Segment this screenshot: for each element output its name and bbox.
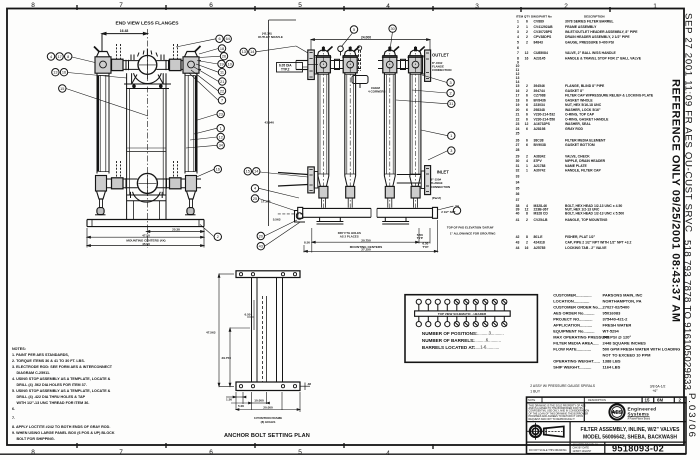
barrel F2 [343, 46, 357, 208]
svg-text:CONNECTION: CONNECTION [432, 68, 451, 72]
schematic header bar [415, 311, 511, 316]
paper trim line bottom [0, 453, 686, 455]
svg-text:(8) HOLES: (8) HOLES [261, 420, 276, 424]
parts list table [516, 15, 654, 250]
svg-text:O-RING, TOP CAP: O-RING, TOP CAP [565, 113, 595, 117]
svg-text:A PowerFlame Brand: A PowerFlame Brand [628, 417, 651, 420]
svg-text:2 ASSY W/ PRESSURE GAUGE SPI: 2 ASSY W/ PRESSURE GAUGE SPIRALS [530, 384, 595, 388]
row4 texts [529, 443, 598, 452]
svg-text:35: 35 [516, 186, 520, 190]
leader 15 [66, 89, 148, 117]
svg-text:8: 8 [526, 235, 528, 239]
svg-text:394744: 394744 [534, 89, 545, 93]
svg-text:3/8 6A-1/2: 3/8 6A-1/2 [650, 385, 666, 389]
svg-text:13: 13 [242, 50, 246, 54]
svg-text:INLET: INLET [437, 170, 450, 175]
svg-text:FRAME ASSEMBLY: FRAME ASSEMBLY [565, 25, 597, 29]
svg-text:V230-214-556: V230-214-556 [534, 117, 556, 121]
svg-text:2: 2 [217, 235, 219, 239]
svg-text:31: 31 [449, 102, 453, 106]
bottom header pipe [95, 179, 201, 188]
svg-text:CPV38DPS: CPV38DPS [534, 35, 552, 39]
frame cross member [127, 151, 166, 153]
svg-text:1: 1 [653, 3, 657, 10]
svg-text:FRESH WATER: FRESH WATER [603, 323, 632, 328]
svg-text:DO NOT SCALE THIS DRAWING: DO NOT SCALE THIS DRAWING [529, 449, 567, 452]
svg-text:28: 28 [516, 148, 520, 152]
svg-text:1388 LBS: 1388 LBS [603, 359, 621, 364]
svg-text:TOP OF PAD ELEVATION 'DATUM': TOP OF PAD ELEVATION 'DATUM' [447, 225, 494, 229]
svg-text:4. USING STOP ASSEMBLY AS A TE: 4. USING STOP ASSEMBLY AS A TEMPLATE, LO… [12, 377, 111, 381]
svg-text:41: 41 [516, 218, 520, 222]
svg-text:DESCRIPTION: DESCRIPTION [584, 15, 605, 19]
outlet nozzle note and extension [269, 20, 296, 226]
svg-text:298348: 298348 [534, 108, 545, 112]
svg-text:394546: 394546 [534, 84, 545, 88]
svg-text:DRAIN HEADER ASSEMBLY, 2 1/2": DRAIN HEADER ASSEMBLY, 2 1/2" PIPE [565, 35, 630, 39]
svg-text:29: 29 [516, 155, 520, 159]
barrel F4 [409, 46, 423, 208]
svg-text:22: 22 [220, 89, 224, 93]
svg-text:95016083: 95016083 [603, 311, 622, 316]
skid support plates [317, 217, 410, 224]
svg-text:WT-5294: WT-5294 [603, 329, 620, 334]
svg-text:A25785: A25785 [534, 246, 546, 250]
bottom couplings [112, 178, 124, 189]
svg-text:7.: 7. [12, 416, 15, 420]
svg-text:38C38: 38C38 [534, 138, 544, 142]
svg-text:4: 4 [526, 159, 528, 163]
title block frame [527, 397, 687, 454]
balloon 15 [244, 168, 251, 175]
balloon 11 [218, 69, 225, 76]
svg-text:500 GPM FRESH WATER WITH LOADI: 500 GPM FRESH WATER WITH LOADING [603, 347, 681, 352]
svg-text:6: 6 [526, 94, 528, 98]
svg-text:1: 1 [526, 25, 528, 29]
svg-text:GRAY ROD: GRAY ROD [565, 127, 583, 131]
left view top dimension 16.48 [102, 29, 147, 52]
svg-text:REFERENCE ONLY 09/25/2001 08:4: REFERENCE ONLY 09/25/2001 08:43:37 AM [670, 79, 682, 322]
svg-text:REQUEST AND NOT TO REPRODUCE I: REQUEST AND NOT TO REPRODUCE IT [529, 418, 576, 421]
svg-text:44: 44 [516, 246, 520, 250]
svg-text:21: 21 [516, 113, 520, 117]
svg-text:NOTE: NOTE [528, 398, 535, 402]
svg-text:4: 4 [254, 187, 256, 191]
svg-text:CAP, PIPE 2 1/2" NPT WITH 1/2": CAP, PIPE 2 1/2" NPT WITH 1/2" NPT +3.2 [565, 241, 631, 245]
svg-text:13: 13 [53, 71, 57, 75]
svg-text:27.250: 27.250 [361, 248, 371, 252]
svg-text:87PV: 87PV [534, 159, 543, 163]
svg-text:2: 2 [526, 41, 528, 45]
svg-text:NUT, HEX 5/16-18 UNC: NUT, HEX 5/16-18 UNC [565, 103, 602, 107]
svg-text:NUMBER OF POSITIONS:: NUMBER OF POSITIONS: [422, 331, 478, 336]
svg-text:BOLT, HEX HEAD 1/2-13 UNC x 5.: BOLT, HEX HEAD 1/2-13 UNC x 5.500 [565, 211, 624, 215]
balloon 13 [240, 48, 247, 55]
svg-text:14: 14 [250, 50, 254, 54]
svg-text:WASHER, SEAL: WASHER, SEAL [565, 122, 591, 126]
left coupling top [112, 59, 124, 70]
svg-text:3: 3 [475, 3, 479, 10]
svg-text:5. USING STOP ASSEMBLY AS A TE: 5. USING STOP ASSEMBLY AS A TEMPLATE, LO… [12, 389, 111, 393]
balloon 1 [217, 125, 224, 132]
svg-text:SHIP WEIGHT...........: SHIP WEIGHT........... [553, 365, 591, 370]
svg-text:42: 42 [516, 235, 520, 239]
zone ticks bottom [77, 443, 433, 449]
svg-text:18: 18 [220, 47, 224, 51]
balloon 4 [47, 53, 54, 60]
svg-text:19: 19 [516, 103, 520, 107]
chem bracket 4 corners [352, 76, 368, 89]
anchor plan top bar [236, 271, 300, 278]
svg-text:33: 33 [516, 175, 520, 179]
svg-text:6: 6 [526, 113, 528, 117]
svg-text:1: 1 [517, 20, 519, 24]
svg-text:9518093-02: 9518093-02 [612, 444, 664, 454]
anchor plan bottom dims [226, 392, 300, 412]
svg-text:11: 11 [220, 71, 224, 75]
svg-text:M328 CD: M328 CD [534, 211, 549, 215]
svg-text:375440-421-2: 375440-421-2 [603, 317, 629, 322]
svg-text:15: 15 [516, 84, 520, 88]
zone numbers top [31, 2, 657, 10]
balloon 12 [217, 133, 224, 140]
anchor plan rails [251, 278, 253, 383]
svg-text:NORTHAMPTON, PA: NORTHAMPTON, PA [603, 299, 642, 304]
svg-text:1" ALLOWANCE FOR GROUTING: 1" ALLOWANCE FOR GROUTING [450, 231, 496, 235]
left view balloons [47, 35, 233, 240]
left barrel tube [97, 73, 109, 173]
outlet flange right [421, 50, 430, 81]
balloon 16 [60, 69, 67, 76]
balloon 14 [253, 168, 260, 175]
leader 4/17/8 [72, 57, 95, 63]
svg-text:47.563: 47.563 [206, 331, 216, 335]
barrel cap details [316, 47, 424, 57]
svg-text:FILTER MEDIA ELEMENT: FILTER MEDIA ELEMENT [565, 138, 606, 142]
svg-text:ITEM QTY DWG/PART No: ITEM QTY DWG/PART No [516, 15, 552, 19]
leader 13/14 [256, 46, 296, 52]
schematic top circles [416, 299, 507, 327]
svg-text:DRILL (4) .422 DIA THRU HOLES: DRILL (4) .422 DIA THRU HOLES & TAP [17, 395, 86, 399]
balloon 15 [59, 85, 66, 92]
svg-text:SEP 27 2001 11:09 FR AES QU-CU: SEP 27 2001 11:09 FR AES QU-CUST SRVC [683, 13, 694, 232]
svg-text:15: 15 [645, 398, 650, 403]
svg-text:VALVE, 2" BALL W/SS HANDLE: VALVE, 2" BALL W/SS HANDLE [565, 51, 617, 55]
saddle under bottom bore [133, 192, 161, 202]
electrode rod between barrels [357, 46, 361, 71]
svg-text:DRILL (4) .562 DIA HOLES FOR I: DRILL (4) .562 DIA HOLES FOR ITEM 37. [17, 383, 87, 387]
AES logo [609, 404, 624, 419]
svg-text:5.563: 5.563 [273, 218, 281, 222]
svg-text:2: 2 [526, 35, 528, 39]
rows above title block [530, 384, 665, 394]
svg-text:A23145: A23145 [534, 56, 546, 60]
svg-text:O-RING, GASKET HANDLE: O-RING, GASKET HANDLE [565, 117, 609, 121]
svg-text:12: 12 [219, 135, 223, 139]
base plate [87, 220, 204, 227]
svg-text:1: 1 [526, 164, 528, 168]
schematic text lines [422, 331, 478, 350]
svg-text:20.750: 20.750 [361, 238, 371, 242]
foot pads [95, 214, 106, 216]
svg-text:CV41292AB: CV41292AB [534, 25, 554, 29]
svg-text:30: 30 [390, 27, 394, 31]
leader 6/64 [176, 39, 216, 47]
svg-text:A30742: A30742 [534, 169, 546, 173]
center frame columns [127, 73, 166, 219]
svg-text:1: 1 [220, 127, 222, 131]
svg-text:518 793 7878 TO 916105029633: 518 793 7878 TO 916105029633 [682, 240, 693, 390]
svg-text:18: 18 [516, 98, 520, 102]
svg-text:HANDLE & TRAVEL STOP FOR 2" BA: HANDLE & TRAVEL STOP FOR 2" BALL VALVE [565, 56, 642, 60]
right barrel tube [185, 73, 197, 173]
svg-text:8: 8 [67, 55, 69, 59]
balloon 43 [257, 243, 264, 250]
svg-text:4: 4 [517, 35, 519, 39]
svg-text:5.00: 5.00 [238, 404, 244, 408]
svg-text:9. WHEN USING LARGE PANEL BOX: 9. WHEN USING LARGE PANEL BOX (6 POS & U… [12, 431, 115, 435]
svg-text:27: 27 [516, 143, 520, 147]
svg-text:EQUIPMENT No..........: EQUIPMENT No.......... [553, 329, 594, 334]
svg-text:END VIEW LESS FLANGES: END VIEW LESS FLANGES [115, 21, 179, 27]
svg-text:FILTER MEDIA AREA.....: FILTER MEDIA AREA..... [553, 341, 598, 346]
svg-text:CV889: CV889 [534, 20, 544, 24]
svg-text:VALVE, CHECK: VALVE, CHECK [565, 155, 590, 159]
svg-text:2: 2 [517, 25, 519, 29]
svg-text:7: 7 [517, 51, 519, 55]
svg-text:23: 23 [219, 112, 223, 116]
balloon 20 [257, 232, 264, 239]
svg-text:NOT TO EXCEED 10 PPM: NOT TO EXCEED 10 PPM [603, 353, 652, 358]
svg-text:4: 4 [50, 55, 52, 59]
balloon 3b [448, 147, 455, 154]
svg-text:FILTER ASSEMBLY, INLINE, W/2": FILTER ASSEMBLY, INLINE, W/2" VALVES [581, 427, 681, 433]
svg-text:8: 8 [31, 2, 35, 9]
dia note box 6.05 [277, 63, 308, 73]
svg-text:34: 34 [516, 180, 520, 184]
svg-text:2448 SQUARE INCHES: 2448 SQUARE INCHES [603, 341, 647, 346]
svg-text:17: 17 [516, 94, 520, 98]
svg-text:25: 25 [253, 197, 257, 201]
svg-text:LOCATION..............: LOCATION.............. [553, 299, 589, 304]
svg-text:7: 7 [221, 99, 223, 103]
svg-text:17.375: 17.375 [261, 200, 271, 204]
svg-text:FLOW RATE.............: FLOW RATE............. [553, 347, 591, 352]
svg-text:GASKET BOTTOM: GASKET BOTTOM [565, 143, 595, 147]
lower right flange INLET [397, 166, 431, 195]
svg-text:HANGLE, TOP MOUNTING: HANGLE, TOP MOUNTING [565, 218, 608, 222]
svg-text:2: 2 [526, 218, 528, 222]
svg-text:TOP VIEW SCHEMATIC - HEADER: TOP VIEW SCHEMATIC - HEADER [438, 312, 487, 316]
svg-text:Systems: Systems [628, 412, 650, 417]
svg-text:31: 31 [516, 164, 520, 168]
balloon 26 [220, 53, 227, 60]
schematic bottom circles [416, 316, 507, 326]
svg-text:6.50: 6.50 [245, 313, 251, 317]
svg-text:+6°: +6° [652, 389, 658, 393]
svg-text:FLANGE, BLIND 8" PIPE: FLANGE, BLIND 8" PIPE [565, 84, 605, 88]
svg-text:1.50: 1.50 [226, 398, 232, 402]
svg-text:6: 6 [526, 103, 528, 107]
svg-text:AS 2 PLACES: AS 2 PLACES [340, 234, 359, 238]
svg-text:FILTER CAP W/PRESSURE RELIEF &: FILTER CAP W/PRESSURE RELIEF & LOCKING P… [565, 94, 654, 98]
svg-text:5: 5 [517, 41, 519, 45]
balloon 5 [350, 26, 357, 33]
left barrel cap / ball valve [94, 47, 111, 74]
barrel F3 [383, 46, 397, 208]
bottom bore circle [137, 173, 157, 193]
svg-text:WITH 1/2"-13 UNC THREAD FOR IT: WITH 1/2"-13 UNC THREAD FOR ITEM 36. [17, 401, 90, 405]
svg-text:..........3...........: ..........3........... [477, 330, 504, 335]
left view vertical centerline [146, 29, 148, 248]
svg-text:20: 20 [516, 108, 520, 112]
svg-text:OUTLET: OUTLET [432, 53, 449, 58]
svg-text:A16732PS: A16732PS [534, 122, 551, 126]
anchor plan dim 6.50 [247, 300, 254, 330]
front view top dimension 24.000 [311, 35, 430, 50]
leader 13/16 [68, 73, 127, 79]
proprietary note text [529, 404, 590, 421]
svg-text:2: 2 [564, 3, 568, 10]
svg-text:6: 6 [526, 127, 528, 131]
svg-text:PROJECT NO............: PROJECT NO............ [553, 317, 592, 322]
right coupling top [170, 59, 182, 70]
svg-text:2: 2 [526, 30, 528, 34]
svg-text:(Part#): (Part#) [432, 196, 441, 200]
unions between barrel caps [308, 59, 409, 69]
svg-text:43: 43 [259, 245, 263, 249]
svg-text:6: 6 [526, 138, 528, 142]
projection symbol [527, 423, 564, 440]
svg-text:OPERATING WEIGHT......: OPERATING WEIGHT...... [553, 359, 600, 364]
svg-text:DESCRIPTION: DESCRIPTION [588, 398, 606, 402]
balloon 21 [219, 78, 226, 85]
balloon 7 [218, 97, 225, 104]
svg-text:3: 3 [450, 81, 452, 85]
svg-text:25.38: 25.38 [172, 228, 180, 232]
front view labels [432, 53, 449, 175]
svg-text:GASKET 8": GASKET 8" [565, 89, 584, 93]
leaders right cluster [199, 49, 218, 55]
svg-text:BV8436: BV8436 [534, 98, 546, 102]
svg-text:A28198: A28198 [534, 127, 546, 131]
anchor plan right tick [300, 385, 310, 387]
svg-text:25: 25 [516, 132, 520, 136]
svg-text:6: 6 [526, 117, 528, 121]
svg-text:64: 64 [226, 37, 230, 41]
anchor plan dim 47.563 [218, 274, 234, 387]
svg-text:CUSTOMER..............: CUSTOMER.............. [553, 293, 591, 298]
bolt ticks around bore [131, 49, 164, 61]
svg-text:NUMBER OF BARRELS:: NUMBER OF BARRELS: [422, 338, 475, 343]
left barrel bottom fittings [96, 176, 107, 215]
balloon 17 [56, 53, 63, 60]
svg-text:.38: .38 [307, 382, 311, 386]
anchor plan hole note [254, 416, 282, 424]
svg-text:16: 16 [216, 168, 220, 172]
svg-text:43.940: 43.940 [265, 121, 275, 125]
gauge on header [338, 46, 344, 52]
left view top header pipe [95, 61, 201, 70]
balloon 13 [52, 69, 59, 76]
svg-text:16: 16 [516, 89, 520, 93]
balloon 2 [447, 89, 454, 96]
svg-text:5: 5 [298, 2, 302, 9]
svg-text:PARSONS MAIN, INC: PARSONS MAIN, INC [603, 293, 643, 298]
svg-text:2: 2 [526, 89, 528, 93]
zone ticks top [77, 5, 610, 12]
top left flange (outlet nozzle) [296, 50, 318, 80]
svg-text:12: 12 [525, 51, 529, 55]
svg-text:2: 2 [526, 84, 528, 88]
svg-text:NOTES:: NOTES: [12, 347, 26, 351]
svg-text:12: 12 [525, 122, 529, 126]
dim 17.375 / 5.563 [278, 213, 304, 215]
svg-text:3: 3 [517, 30, 519, 34]
balloon 64 [224, 35, 231, 42]
svg-text:4: 4 [386, 3, 390, 10]
svg-text:6: 6 [526, 108, 528, 112]
svg-text:CU85084: CU85084 [534, 51, 548, 55]
balloon 34 [217, 142, 224, 149]
balloon 4 [251, 185, 258, 192]
balloon 8 [65, 53, 72, 60]
svg-text:6: 6 [517, 46, 519, 50]
svg-text:23: 23 [516, 122, 520, 126]
svg-text:14: 14 [254, 170, 258, 174]
svg-text:5: 5 [353, 28, 355, 32]
svg-text:........1-6...........: ........1-6........... [471, 344, 499, 349]
svg-text:3078 SERIES FILTER BARREL: 3078 SERIES FILTER BARREL [565, 20, 614, 24]
svg-text:223034: 223034 [534, 103, 545, 107]
svg-text:BOLT FOR SHIPPING.: BOLT FOR SHIPPING. [17, 437, 55, 441]
svg-text:84843: 84843 [534, 41, 544, 45]
svg-text:29.750: 29.750 [222, 356, 232, 360]
svg-text:43: 43 [516, 241, 520, 245]
balloon 29 [453, 207, 460, 214]
svg-text:BV9038: BV9038 [534, 143, 546, 147]
svg-text:A38342: A38342 [534, 155, 546, 159]
svg-text:16: 16 [525, 246, 529, 250]
balloon 16b [214, 166, 221, 173]
balloon 31 [448, 100, 455, 107]
svg-text:20: 20 [259, 234, 263, 238]
balloon 30 [389, 25, 396, 32]
cone symbol [544, 426, 564, 436]
title row2/3 divider [527, 421, 585, 423]
title text [581, 427, 681, 440]
svg-text:8. APPLY LOCTITE #242 TO BOTH: 8. APPLY LOCTITE #242 TO BOTH ENDS OF GR… [12, 425, 110, 429]
svg-text:MODEL 56006642, SHEBA, BACKWAS: MODEL 56006642, SHEBA, BACKWASH [583, 434, 677, 440]
svg-text:45.50: 45.50 [142, 242, 150, 246]
svg-text:...........6...........: ...........6........... [473, 337, 501, 342]
svg-text:22: 22 [516, 117, 520, 121]
balloon 2 [214, 233, 221, 240]
svg-text:10.000: 10.000 [254, 399, 264, 403]
svg-text:WASHER, LOCK 5/16": WASHER, LOCK 5/16" [565, 108, 601, 112]
front view barrels [261, 46, 438, 253]
svg-text:7: 7 [119, 2, 123, 9]
svg-text:245 PSI @ 120°: 245 PSI @ 120° [603, 335, 632, 340]
svg-text:8.50: 8.50 [304, 240, 310, 244]
svg-text:1: 1 [526, 169, 528, 173]
balloon 3 [447, 79, 454, 86]
svg-text:CZ7088: CZ7088 [534, 94, 546, 98]
svg-text:V230-214-532: V230-214-532 [534, 113, 556, 117]
svg-text:OUTLET NOZZLE: OUTLET NOZZLE [258, 35, 283, 39]
svg-text:INLET/OUTLET HEADER ASSEMBLY,: INLET/OUTLET HEADER ASSEMBLY, 8" PIPE [565, 30, 638, 34]
svg-text:GASKET WHOLE: GASKET WHOLE [565, 98, 593, 102]
